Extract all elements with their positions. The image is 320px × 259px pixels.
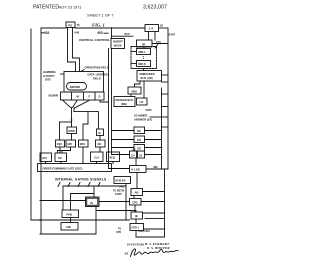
svg-text:ZR: ZR bbox=[137, 147, 141, 151]
svg-text:AIB: AIB bbox=[66, 225, 71, 229]
wire rung to FR bbox=[112, 139, 135, 141]
wire rung to ZR bbox=[112, 147, 135, 149]
label inventor B. J. ECKHART bbox=[144, 242, 170, 246]
svg-text:MASKED BUS: MASKED BUS bbox=[116, 98, 134, 102]
svg-text:IAR: IAR bbox=[97, 143, 101, 146]
svg-text:5405: 5405 bbox=[146, 108, 152, 112]
svg-text:ORDER COMBINING GATE (OCG): ORDER COMBINING GATE (OCG) bbox=[43, 167, 83, 170]
svg-text:AB: AB bbox=[135, 191, 139, 195]
wire FR to bus bbox=[145, 139, 162, 141]
wire masked bus column B bbox=[112, 49, 130, 155]
svg-text:CPD: CPD bbox=[132, 201, 138, 205]
box ABOWR bbox=[67, 83, 87, 91]
register MCD bbox=[79, 140, 89, 147]
box CPD bbox=[130, 199, 142, 206]
svg-text:MASK: MASK bbox=[114, 44, 122, 48]
wire rung UB right bbox=[162, 74, 169, 76]
node label 5403 5404 bbox=[138, 230, 150, 233]
box operation field bbox=[64, 72, 104, 93]
svg-text:MBI: MBI bbox=[132, 89, 137, 93]
label scanner answer SA bbox=[134, 114, 152, 122]
svg-text:FR: FR bbox=[137, 138, 141, 142]
wire UB to MB1 bbox=[135, 81, 141, 87]
wire feedback left bbox=[30, 29, 32, 220]
wire rung r1 bbox=[162, 81, 169, 83]
node label 5405 bbox=[146, 108, 152, 112]
wire rail bottom left bbox=[40, 233, 96, 235]
svg-text:5407: 5407 bbox=[169, 33, 176, 37]
svg-text:NOV 23 1971: NOV 23 1971 bbox=[59, 5, 82, 9]
wire AB to CPD bbox=[133, 196, 135, 199]
box PS program store bbox=[66, 22, 75, 28]
svg-text:INVENTORS: INVENTORS bbox=[126, 243, 144, 247]
wire h mid low bbox=[96, 211, 136, 213]
label HAMMING & PARITY BITS bbox=[43, 70, 56, 82]
wire bowr down pair b bbox=[73, 108, 75, 112]
signature bbox=[131, 249, 179, 257]
register BOWR bbox=[61, 92, 105, 100]
svg-text:BOWR: BOWR bbox=[49, 94, 59, 98]
svg-text:600: 600 bbox=[98, 31, 104, 35]
register IAR bbox=[96, 140, 106, 147]
wire bottom rail bbox=[136, 236, 165, 238]
register FR bbox=[134, 136, 145, 143]
node label 24 bbox=[133, 148, 136, 152]
wire XR to bus bbox=[145, 130, 162, 132]
svg-text:MB: MB bbox=[154, 165, 158, 169]
box K LOG bbox=[130, 166, 147, 173]
svg-text:ANSWER (SA): ANSWER (SA) bbox=[134, 118, 152, 122]
wire drop mcd bbox=[83, 112, 88, 140]
wire stub MIR-1 bbox=[131, 51, 137, 53]
box CLA bbox=[91, 152, 104, 162]
svg-text:BITS: BITS bbox=[45, 78, 51, 82]
figure label FIG. 1 bbox=[92, 22, 105, 27]
svg-text:NTW DA: NTW DA bbox=[116, 180, 126, 183]
svg-text:640: 640 bbox=[75, 31, 80, 35]
register IWD bbox=[66, 140, 76, 147]
svg-text:SEQ: SEQ bbox=[110, 156, 115, 159]
header SHEET 1 OF 7 bbox=[87, 13, 114, 18]
wire funnel right bbox=[75, 101, 90, 109]
node label 70 bbox=[77, 23, 81, 27]
header PATENTED date bbox=[33, 5, 82, 11]
wire rung r5 bbox=[145, 217, 165, 219]
wire register to bus bbox=[100, 101, 109, 103]
wire ai loop bbox=[71, 193, 95, 195]
svg-text:CONT: CONT bbox=[115, 193, 122, 196]
node label 603 bbox=[44, 31, 50, 35]
wire ZR to bus bbox=[145, 147, 162, 149]
svg-text:DATA- ADDRESS: DATA- ADDRESS bbox=[88, 73, 110, 77]
wire funnel mid bbox=[73, 101, 78, 108]
node label 20 bbox=[160, 23, 164, 27]
box JCS bbox=[40, 153, 52, 162]
svg-text:70: 70 bbox=[77, 23, 81, 27]
svg-text:CPD: CPD bbox=[116, 231, 121, 234]
wire CPD down bbox=[134, 205, 136, 212]
svg-text:BUS (UB): BUS (UB) bbox=[141, 76, 153, 80]
register MB1 bbox=[128, 87, 141, 94]
bus lower right vertical bbox=[164, 169, 166, 237]
register SQD bbox=[56, 140, 65, 147]
svg-text:IA: IA bbox=[98, 131, 101, 135]
box insert mask bbox=[111, 39, 125, 49]
label BOWR bbox=[49, 94, 59, 98]
wire AI to CPD bbox=[99, 201, 130, 203]
box AIB bbox=[61, 223, 78, 231]
svg-text:INTERNAL GATING SIGNALS: INTERNAL GATING SIGNALS bbox=[55, 177, 107, 181]
register OWR bbox=[67, 127, 77, 134]
svg-text:IB: IB bbox=[135, 214, 138, 218]
register MIR-N bbox=[137, 61, 151, 67]
wire AB col down bbox=[125, 184, 127, 221]
svg-text:CH: CH bbox=[131, 154, 135, 157]
box 1-5 bbox=[145, 25, 159, 32]
node label 640 bbox=[75, 31, 80, 35]
box IA bbox=[97, 129, 104, 136]
svg-text:1-5: 1-5 bbox=[149, 27, 154, 31]
svg-text:PS: PS bbox=[68, 24, 72, 28]
bus unmasked bus UB bbox=[137, 71, 162, 82]
wire bowr down pair a bbox=[71, 108, 73, 128]
svg-text:SQD: SQD bbox=[57, 144, 62, 146]
wire row2 to ocg d bbox=[112, 162, 114, 164]
svg-text:SHEET 1 OF 7: SHEET 1 OF 7 bbox=[87, 13, 114, 18]
svg-text:270: 270 bbox=[156, 40, 161, 44]
wire 650 bbox=[112, 35, 134, 37]
svg-text:PATENTED: PATENTED bbox=[33, 5, 59, 11]
register ZR bbox=[134, 145, 145, 152]
svg-text:650: 650 bbox=[125, 32, 130, 36]
node label 5401 bbox=[119, 186, 125, 189]
svg-text:OPERATION FIELD: OPERATION FIELD bbox=[85, 66, 109, 70]
svg-text:MIR-1: MIR-1 bbox=[139, 50, 147, 54]
box PAB bbox=[62, 210, 79, 218]
svg-text:CLA: CLA bbox=[94, 156, 99, 159]
box SEQ bbox=[107, 152, 120, 162]
outer box right edge bbox=[167, 28, 169, 169]
wire rail mid bbox=[31, 219, 130, 221]
svg-text:CENTRAL CONTROL: CENTRAL CONTROL bbox=[79, 38, 110, 42]
bus right vertical inner bbox=[161, 88, 163, 169]
svg-text:F: F bbox=[89, 95, 91, 99]
wire group to UB bbox=[143, 69, 145, 71]
wire drop pab mid bbox=[70, 194, 72, 211]
central control outer box 600 top edge bbox=[41, 27, 66, 29]
wire PAB to AIB bbox=[70, 218, 72, 223]
wire rung IB right bbox=[143, 212, 165, 214]
svg-text:HAMMING: HAMMING bbox=[43, 70, 56, 74]
node label 600 bbox=[98, 31, 104, 35]
label INTERNAL GATING SIGNALS bbox=[55, 177, 107, 181]
label INVENTORS bbox=[126, 243, 144, 247]
svg-text:FIG. 1: FIG. 1 bbox=[92, 22, 105, 27]
wire row2 to ocg c bbox=[96, 162, 98, 164]
svg-text:E. S. HOOVER: E. S. HOOVER bbox=[146, 246, 170, 250]
wire row1 b2 bbox=[57, 151, 59, 154]
outer box left edge bbox=[40, 28, 42, 234]
box AB bbox=[131, 189, 143, 196]
wire drop b1 bbox=[59, 122, 61, 140]
svg-text:OC: OC bbox=[58, 156, 62, 160]
box OC bbox=[55, 153, 67, 162]
svg-text:K LOG: K LOG bbox=[132, 168, 141, 172]
register CH bbox=[130, 151, 137, 158]
node label 5407 bbox=[169, 33, 176, 37]
wire MIR to right edge bbox=[152, 43, 168, 45]
node label 650 bbox=[125, 32, 130, 36]
wire stub MIR-N bbox=[131, 63, 137, 65]
wire gating arrows bbox=[58, 183, 60, 187]
svg-text:20: 20 bbox=[160, 23, 164, 27]
register LR bbox=[137, 98, 148, 105]
wire ocg feedback top bbox=[63, 185, 126, 187]
node label 210 bbox=[156, 40, 161, 44]
wire rung AB right bbox=[143, 191, 165, 193]
svg-text:JCS: JCS bbox=[42, 157, 47, 160]
svg-text:MCD: MCD bbox=[80, 144, 86, 146]
svg-text:3,623,007: 3,623,007 bbox=[143, 5, 167, 11]
label CENTRAL CONTROL bbox=[79, 38, 110, 42]
svg-text:(MB): (MB) bbox=[121, 102, 127, 106]
svg-text:UNMASKED: UNMASKED bbox=[139, 72, 155, 76]
svg-text:MIR-N: MIR-N bbox=[138, 62, 146, 66]
box order combining gate OCG bbox=[38, 164, 112, 172]
wire IB to CPD-1 bbox=[135, 219, 137, 224]
label BY bbox=[124, 251, 130, 255]
header patent number 3,623,007 bbox=[143, 5, 167, 11]
wire AI bottom drop bbox=[95, 207, 97, 235]
wire to index adder bbox=[74, 112, 98, 129]
wire MB1 to masked bus bbox=[130, 94, 132, 97]
register XR bbox=[134, 127, 145, 134]
label inventor E. S. HOOVER bbox=[146, 246, 170, 250]
label OPERATION FIELD bbox=[85, 66, 109, 70]
wire into insert mask bbox=[111, 28, 113, 39]
register IB bbox=[131, 212, 143, 219]
wire owr down bbox=[71, 134, 73, 141]
wire row1 c bbox=[82, 147, 84, 164]
wire left to AI bbox=[40, 200, 86, 202]
svg-text:CS: CS bbox=[139, 154, 143, 157]
wire K LOG to bus MB bbox=[146, 168, 168, 170]
svg-text:D: D bbox=[99, 95, 101, 99]
wire UB to LR bbox=[143, 81, 145, 98]
svg-text:OWR: OWR bbox=[68, 129, 75, 133]
register MIR bbox=[137, 40, 153, 47]
label DATA-ADDRESS FIELD bbox=[88, 73, 110, 81]
svg-text:PAB: PAB bbox=[67, 212, 73, 216]
bus masked bus MB bbox=[114, 97, 135, 107]
dashed group MIR-1..MIR-N bbox=[131, 47, 157, 69]
wire op feed B bbox=[73, 28, 80, 72]
wire row2 to ocg a bbox=[45, 162, 47, 164]
wire funnel left bbox=[63, 101, 71, 108]
wire row1 b bbox=[62, 147, 71, 153]
wire rung r3 bbox=[162, 116, 169, 118]
wire drop pab left bbox=[62, 186, 64, 210]
wire ia down bbox=[99, 136, 101, 141]
wire rung to XR bbox=[112, 130, 135, 132]
wire row1 d bbox=[99, 147, 101, 152]
svg-text:IWD: IWD bbox=[68, 144, 73, 146]
wire CPD-1 to bottom rail bbox=[135, 231, 137, 238]
box AI bbox=[86, 197, 100, 207]
wire op feed A bbox=[68, 28, 76, 72]
svg-text:603: 603 bbox=[44, 31, 50, 35]
wire 1-5 to MIR bbox=[148, 32, 150, 41]
wire row1 to OC bbox=[59, 147, 61, 153]
register MIR-1 bbox=[137, 49, 151, 55]
label TO NETW CONT bbox=[113, 190, 125, 196]
wire row2 to ocg b bbox=[60, 162, 62, 164]
wire rung r2 bbox=[162, 106, 169, 108]
svg-text:INSERT: INSERT bbox=[113, 40, 123, 44]
wire MIR to MIR-1 bbox=[143, 47, 145, 49]
wire CS to bus bbox=[145, 154, 162, 156]
box NTW DA bbox=[114, 177, 131, 184]
svg-text:XR: XR bbox=[137, 129, 141, 133]
wire ai top feed bbox=[93, 186, 95, 197]
register CS bbox=[138, 151, 145, 158]
wire cross h bbox=[60, 121, 72, 123]
box CPD-1 bbox=[130, 224, 144, 231]
label TO CPD bbox=[116, 228, 121, 234]
svg-text:FIELD: FIELD bbox=[93, 76, 101, 80]
svg-text:ABOWR: ABOWR bbox=[70, 85, 81, 89]
svg-text:& PARITY: & PARITY bbox=[43, 74, 55, 78]
wire rung r4 bbox=[150, 116, 162, 118]
svg-text:SCANNER: SCANNER bbox=[134, 114, 147, 118]
wire K LOG to AB bbox=[136, 173, 138, 189]
svg-text:AI: AI bbox=[90, 201, 93, 205]
wire rung CPD right bbox=[141, 201, 165, 203]
wire CH to K LOG bbox=[135, 158, 137, 166]
svg-text:5403,5404: 5403,5404 bbox=[138, 230, 150, 233]
wire masked bus column A bbox=[109, 49, 130, 169]
